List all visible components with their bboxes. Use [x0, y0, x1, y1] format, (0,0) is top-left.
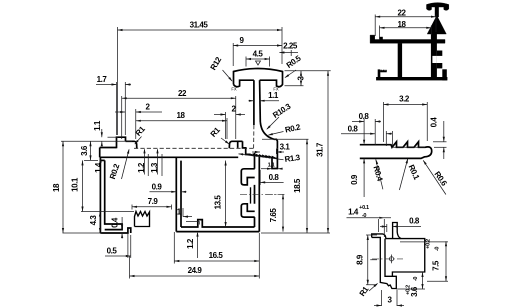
profile main: screw-boss upper jaw: [241, 169, 254, 185]
svg-text:1.1: 1.1: [268, 91, 279, 100]
profile main: screw slot back: [250, 187, 252, 203]
view4 dim 3.6 +0.2/-0: [396, 272, 425, 297]
view4 dim 3: [374, 290, 404, 307]
profile main: stem left edge hidden (dashed): [253, 125, 255, 148]
view2 silhouette: center web: [398, 43, 402, 77]
svg-text:31.7: 31.7: [316, 142, 325, 157]
svg-text:1.2: 1.2: [186, 238, 195, 249]
svg-text:16.5: 16.5: [209, 251, 224, 260]
svg-text:0.9: 0.9: [152, 182, 163, 191]
view3 dim 3.2: [384, 95, 428, 143]
profile main: bottom box left wall: [176, 157, 181, 231]
svg-text:0.8: 0.8: [269, 173, 280, 182]
dim 7.9: [132, 197, 172, 210]
view2 dim 22: [375, 9, 436, 37]
dim 1.3 web: [150, 148, 162, 176]
cap tip marks: [231, 87, 279, 92]
profile main: serrated slope to right wall: [251, 154, 278, 158]
svg-text:+0.2: +0.2: [426, 239, 432, 249]
dim 24.9: [130, 233, 260, 279]
view3 dim 0.8 upper: [352, 112, 381, 145]
profile main: right wall stub below slope: [272, 148, 277, 168]
dim 1.4 web thickness left: [94, 158, 103, 173]
leader R1.3: [238, 153, 301, 164]
svg-text:24.9: 24.9: [188, 266, 203, 275]
svg-text:3.6: 3.6: [80, 145, 89, 156]
svg-text:7.65: 7.65: [269, 208, 278, 223]
svg-text:7.9: 7.9: [148, 197, 159, 206]
profile main: top-left edge: [100, 147, 117, 149]
dim 4.3: [89, 212, 101, 234]
view4 clip finger: [393, 223, 401, 239]
svg-text:FX: FX: [273, 87, 279, 92]
view3 serration band outline: [360, 142, 432, 159]
profile main: cap snap stem: [254, 80, 260, 125]
svg-text:0.8: 0.8: [409, 217, 420, 226]
profile main: left glazing lip: [126, 141, 137, 148]
svg-text:18: 18: [52, 183, 61, 192]
view2 silhouette: top flange with left lip and nub: [370, 35, 445, 43]
svg-text:13.5: 13.5: [214, 195, 223, 210]
dim 31.45 overall width: [118, 21, 283, 136]
svg-text:FX: FX: [231, 87, 237, 92]
svg-text:10.1: 10.1: [71, 177, 80, 192]
dim 3.1: [252, 143, 290, 155]
profile main: bottom box floor: [176, 220, 259, 232]
svg-text:31.45: 31.45: [190, 21, 209, 30]
dim 18.5: [262, 139, 309, 233]
svg-text:18: 18: [177, 111, 186, 120]
dim 1.1 right wall: [261, 163, 283, 170]
svg-text:8.9: 8.9: [356, 254, 365, 265]
dim 13.5 box height: [214, 161, 227, 228]
profile main: bottom box right wall: [255, 153, 260, 232]
svg-text:-0: -0: [413, 277, 419, 282]
svg-text:1.7: 1.7: [97, 75, 108, 84]
profile main: right glazing lip: [229, 141, 242, 148]
dim 18 pocket inner width: [136, 111, 227, 139]
svg-text:18.5: 18.5: [293, 178, 302, 193]
dim 3 cap height: [285, 71, 306, 86]
dim 1.2 box bottom: [186, 232, 199, 258]
dim 9 cap width: [233, 36, 282, 66]
svg-text:1.4: 1.4: [348, 208, 359, 217]
dim 1.1 stem width: [249, 91, 280, 102]
view3 leader R0.6: [423, 160, 449, 195]
dim 18 left height: [52, 141, 102, 233]
svg-text:0.4: 0.4: [111, 217, 120, 228]
view4 leader R1: [358, 283, 378, 298]
profile main: left top wall 1.7: [117, 137, 126, 148]
leader R0.5 cap right radius: [285, 53, 304, 78]
profile main: web top right edge: [274, 139, 277, 148]
view4 dim 0.8: [380, 217, 421, 233]
dim 0.8 jaw: [260, 170, 283, 185]
dim 0.9 box wall: [150, 182, 187, 193]
view2 dim 18: [380, 20, 432, 39]
view3 dim 0.8 lower: [341, 125, 392, 147]
leader R12 cap outer radius: [209, 55, 233, 82]
profile main: step under stem: [238, 141, 251, 154]
view2 silhouette: bottom flange with hooks: [376, 69, 447, 80]
dim 1.2 web: [137, 148, 148, 176]
dim 1.1 left wall step height: [61, 120, 132, 146]
svg-text:0.4: 0.4: [430, 117, 439, 128]
profile main: left end face: [99, 148, 101, 158]
view3 leader R0.4: [371, 159, 384, 189]
dim 0.5 foot gap: [105, 233, 131, 258]
dim 22 pocket width: [122, 89, 236, 139]
svg-text:0.9: 0.9: [350, 174, 359, 185]
dim 16.5: [174, 232, 259, 264]
profile main: left outer wall: [100, 157, 122, 233]
svg-text:1.4: 1.4: [94, 162, 103, 173]
profile main: pocket floor hidden line (dashed): [134, 147, 254, 149]
leader R0.2 right: [268, 122, 302, 135]
dim 2.25: [279, 42, 298, 57]
dim 3.6 left flange: [80, 141, 98, 160]
svg-text:+0.1: +0.1: [359, 205, 369, 211]
svg-text:3.6: 3.6: [410, 286, 419, 297]
view2 silhouette: right wall with jaw: [431, 34, 442, 77]
profile main: screw axis centerline: [240, 193, 284, 195]
dim 0.4 bottom lip: [111, 217, 124, 239]
dim 1.7 left wall: [96, 75, 131, 135]
dim 1 box inner wall: [177, 208, 200, 225]
view2 silhouette: section triangle: [427, 16, 446, 35]
view4 dim 8.9: [356, 235, 378, 285]
svg-text:22: 22: [398, 9, 407, 18]
view3 dim 0.9: [350, 140, 365, 197]
svg-text:4.3: 4.3: [89, 215, 98, 226]
dim 7.65: [266, 194, 285, 231]
profile main: web bottom edge: [100, 156, 239, 158]
view4 screw centerline and mark: [372, 255, 403, 264]
profile main: screw-boss lower jaw: [241, 204, 254, 217]
svg-text:3.2: 3.2: [399, 95, 410, 104]
leader R1 left lip radius: [134, 124, 148, 144]
profile main: stem right flare R10.3 into web: [260, 122, 274, 139]
view4 dim 1.4 +0.1/-0: [347, 205, 392, 237]
svg-text:2.25: 2.25: [283, 42, 298, 51]
dim 2 left lip: [115, 103, 162, 140]
leader R10.3: [266, 101, 293, 129]
svg-text:-0: -0: [435, 247, 441, 252]
svg-text:3.1: 3.1: [280, 143, 291, 152]
view4 hook outline: [372, 234, 425, 289]
view3 leader R0.1: [399, 158, 421, 190]
svg-text:22: 22: [178, 89, 187, 98]
view4 dim 7.5 +0.2/-0: [400, 239, 448, 281]
dim 31.7 overall height: [261, 71, 331, 233]
dim 2 right lip: [214, 105, 245, 140]
profile main: bottom-left foot and lip: [100, 228, 130, 233]
leader R1 right lip radius: [209, 125, 230, 144]
dim 4.5 cap boss: [246, 50, 270, 67]
svg-text:1.1: 1.1: [93, 120, 102, 131]
view2 silhouette: cap head (solid): [427, 3, 449, 17]
svg-text:0.5: 0.5: [107, 247, 118, 256]
svg-text:7.5: 7.5: [432, 260, 441, 271]
svg-text:4.5: 4.5: [253, 50, 264, 59]
svg-text:0.8: 0.8: [348, 125, 359, 134]
leader R0.2 left: [108, 149, 129, 181]
profile main cross-section: top cap (mushroom head): [234, 69, 283, 87]
svg-text:1.1: 1.1: [268, 163, 275, 169]
profile main: serrated foot block: [135, 212, 150, 227]
dim 10.1: [71, 160, 135, 211]
view3 dim 0.4: [430, 117, 447, 159]
